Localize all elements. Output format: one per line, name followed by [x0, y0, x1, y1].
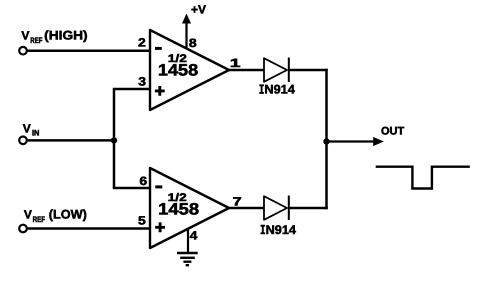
svg-text:IN: IN	[32, 128, 40, 137]
wire U1 output to D1	[228, 69, 265, 72]
wire vertical bus from pin3 to pin6	[113, 89, 116, 188]
wire pin6	[113, 187, 152, 190]
svg-text:2: 2	[138, 36, 146, 50]
terminal VREF(LOW)	[19, 225, 27, 233]
terminal VIN	[19, 137, 27, 145]
label VREF (HIGH)	[21, 28, 87, 45]
svg-text:5: 5	[138, 214, 146, 228]
svg-text:4: 4	[190, 229, 198, 243]
wire OUT with arrowhead	[327, 137, 384, 146]
svg-text:7: 7	[233, 194, 242, 208]
svg-text:1458: 1458	[158, 62, 198, 80]
wire D1 cathode to right bus	[288, 69, 328, 72]
svg-text:REF: REF	[33, 215, 45, 224]
ground symbol	[177, 253, 198, 265]
wire pin3	[113, 88, 152, 91]
label VIN	[23, 122, 40, 138]
svg-text:N914: N914	[264, 83, 294, 97]
svg-text:V: V	[24, 207, 32, 221]
svg-text:+V: +V	[191, 2, 206, 16]
svg-text:8: 8	[189, 36, 197, 50]
label IN914 (D2)	[261, 223, 297, 237]
output waveform (notch pulse)	[376, 167, 470, 189]
op-amp U2 (1/2 1458 bottom)	[150, 168, 229, 248]
wire U2 output to D2	[228, 207, 265, 210]
U1 minus sign	[155, 47, 162, 50]
svg-text:1: 1	[230, 56, 241, 70]
wire VIN horizontal	[27, 139, 114, 142]
wire pin5 (VREF LOW to U2 non-inverting input)	[27, 227, 152, 230]
label IN914 (D1)	[259, 83, 295, 97]
U2 plus sign	[155, 222, 165, 232]
+V supply arrow (pin 8)	[182, 14, 191, 49]
svg-text:V: V	[23, 122, 31, 136]
svg-text:OUT: OUT	[381, 126, 405, 138]
op-amp U1 (1/2 1458 top)	[150, 30, 229, 110]
node junction output bus	[323, 138, 329, 144]
label VREF (LOW)	[24, 207, 87, 224]
svg-text:REF: REF	[30, 36, 42, 45]
svg-text:3: 3	[138, 74, 146, 88]
terminal VREF(HIGH)	[19, 47, 27, 55]
svg-text:(LOW): (LOW)	[49, 208, 87, 222]
diode D1 (top IN914)	[264, 58, 289, 83]
wire right vertical bus	[325, 69, 328, 210]
wire pin2 (VREF HIGH to U1 inverting input)	[27, 49, 152, 52]
node junction VIN bus	[111, 137, 117, 143]
U1 plus sign	[155, 86, 165, 96]
wire D2 cathode to right bus	[288, 207, 328, 210]
pin 4 wire to ground	[187, 230, 189, 254]
svg-text:6: 6	[139, 174, 147, 188]
svg-text:V: V	[21, 28, 29, 42]
svg-text:(HIGH): (HIGH)	[44, 28, 87, 42]
svg-text:N914: N914	[266, 223, 296, 237]
U2 minus sign	[155, 185, 162, 188]
svg-text:1458: 1458	[158, 201, 199, 219]
diode D2 (bottom IN914)	[264, 196, 289, 221]
